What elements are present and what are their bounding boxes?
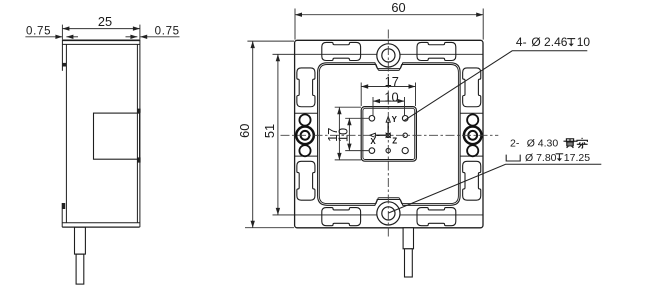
svg-text:Ø 2.46: Ø 2.46 [531,35,567,49]
svg-text:10: 10 [577,35,591,49]
svg-text:25: 25 [98,14,112,29]
svg-text:X: X [370,137,376,146]
svg-text:Z: Z [392,137,397,146]
svg-text:51: 51 [262,124,277,138]
svg-text:Y: Y [392,115,398,124]
svg-text:10: 10 [384,89,398,104]
svg-text:60: 60 [237,124,252,138]
svg-text:2-: 2- [510,137,520,149]
svg-text:Ø 4.30: Ø 4.30 [527,137,559,149]
svg-text:4-: 4- [516,35,527,49]
svg-text:60: 60 [391,0,405,15]
svg-text:0.75: 0.75 [26,26,51,38]
svg-text:17: 17 [385,74,399,89]
svg-text:0.75: 0.75 [155,26,180,38]
svg-text:10: 10 [336,128,351,142]
svg-text:17.25: 17.25 [564,152,590,164]
svg-text:Ø 7.80: Ø 7.80 [525,152,557,164]
